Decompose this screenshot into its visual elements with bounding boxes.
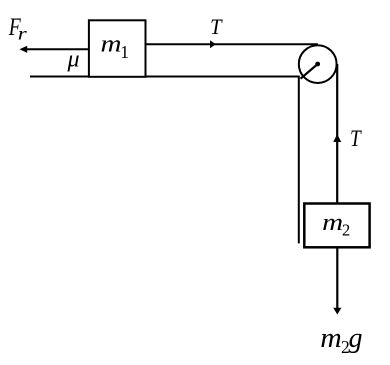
rope vertical — [336, 64, 338, 204]
block m1 — [89, 20, 146, 77]
svg-text:1: 1 — [120, 42, 129, 62]
svg-text:μ: μ — [67, 47, 80, 73]
rope horizontal — [146, 43, 319, 45]
pulley axle bracket — [301, 64, 318, 79]
pulley wheel — [299, 45, 337, 83]
friction arrow — [20, 46, 89, 53]
svg-text:m: m — [101, 32, 122, 58]
tension arrowhead on horizontal rope — [210, 40, 216, 48]
pulley hub dot — [315, 62, 320, 67]
weight arrow m2g — [333, 248, 341, 315]
svg-text:r: r — [18, 24, 28, 44]
label m1 — [101, 32, 130, 62]
block m2 — [304, 204, 369, 248]
svg-text:T: T — [350, 126, 363, 151]
table right edge — [298, 76, 300, 244]
svg-text:g: g — [349, 323, 363, 354]
svg-text:T: T — [210, 14, 223, 39]
svg-text:2: 2 — [342, 221, 350, 240]
label F_r — [8, 14, 28, 44]
label m2g — [320, 323, 362, 357]
table surface — [30, 76, 299, 78]
svg-text:m: m — [322, 210, 343, 236]
label m2 — [322, 210, 350, 240]
tension arrowhead on vertical rope — [333, 134, 341, 142]
svg-text:m: m — [320, 323, 342, 354]
